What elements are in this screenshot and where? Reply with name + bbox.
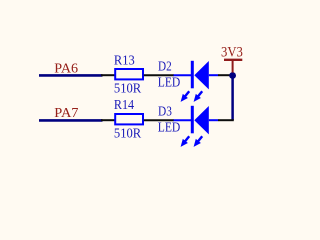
junction node 3V3 xyxy=(229,72,236,79)
LED D2 cathode bar xyxy=(191,61,194,89)
LED D2 anode lead xyxy=(209,74,218,76)
LED D2 triangle xyxy=(194,61,209,89)
LED D3 cathode lead xyxy=(174,119,192,121)
resistor R13 pin 2 xyxy=(144,74,174,76)
LED D2 emission arrow 2 xyxy=(194,91,203,102)
svg-text:LED: LED xyxy=(158,120,181,135)
svg-text:D3: D3 xyxy=(158,104,172,119)
wire net PA7 xyxy=(39,119,103,122)
svg-text:PA7: PA7 xyxy=(54,106,78,121)
resistor R14 pin 1 xyxy=(101,119,115,121)
LED D3 emission arrow 2 xyxy=(194,136,203,147)
power symbol 3V3 stub xyxy=(232,60,234,73)
svg-text:LED: LED xyxy=(158,75,181,90)
svg-text:510R: 510R xyxy=(114,81,142,96)
svg-text:510R: 510R xyxy=(114,126,142,141)
LED D3 triangle xyxy=(194,106,209,134)
LED D2 cathode lead xyxy=(174,74,192,76)
LED D2 emission arrow 1 xyxy=(181,91,190,102)
resistor R14 pin 2 xyxy=(144,119,174,121)
LED D3 cathode bar xyxy=(191,106,194,134)
wire vertical 3V3 rail xyxy=(231,76,234,121)
svg-text:D2: D2 xyxy=(158,59,172,74)
resistor R14 body xyxy=(115,114,143,124)
resistor R13 body xyxy=(115,69,143,79)
svg-text:3V3: 3V3 xyxy=(221,45,243,61)
wire D3 anode to 3V3 rail xyxy=(218,119,234,121)
LED D3 emission arrow 1 xyxy=(181,136,190,147)
svg-text:R14: R14 xyxy=(114,98,134,113)
svg-text:R13: R13 xyxy=(114,54,135,69)
LED D3 anode lead xyxy=(209,119,218,121)
resistor R13 pin 1 xyxy=(101,74,115,76)
wire net PA6 xyxy=(39,74,103,77)
power symbol 3V3 bar xyxy=(224,59,242,61)
wire D2 anode to 3V3 xyxy=(218,74,231,76)
